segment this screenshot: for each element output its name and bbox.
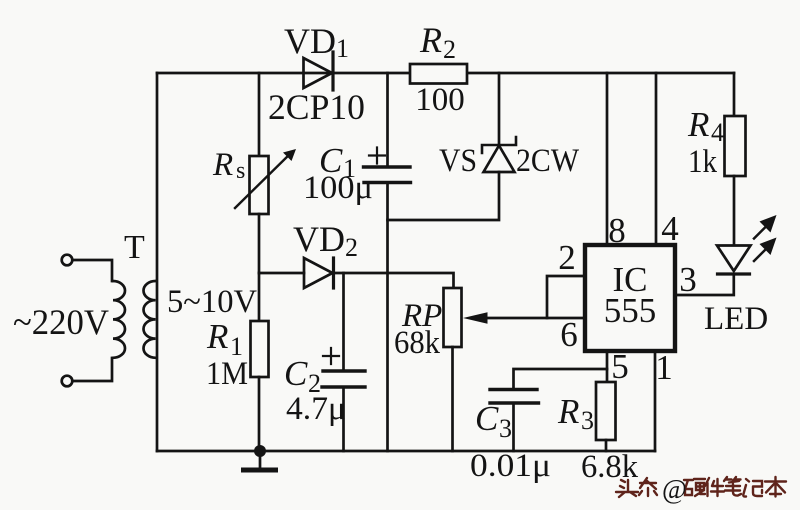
- diode VD2: [304, 258, 334, 288]
- wire pin6 to RP wiper: [463, 312, 585, 324]
- ground: [244, 451, 276, 470]
- label R1: [206, 317, 243, 361]
- svg-text:2: 2: [443, 35, 456, 64]
- label 4.7u: [286, 391, 346, 427]
- svg-text:68k: 68k: [394, 325, 440, 361]
- LED D1: [675, 246, 751, 296]
- label 2CP10: [268, 87, 365, 127]
- label 2CW: [516, 143, 580, 179]
- svg-text:C: C: [475, 399, 499, 438]
- label RP: [401, 298, 442, 334]
- wire Rs to node A: [258, 214, 261, 273]
- svg-text:~220V: ~220V: [13, 302, 109, 342]
- svg-text:VS: VS: [439, 143, 477, 179]
- svg-text:0.01μ: 0.01μ: [470, 448, 551, 484]
- wire primary bottom: [73, 358, 113, 381]
- label 68k: [394, 325, 440, 361]
- svg-text:VD: VD: [293, 219, 345, 259]
- svg-text:6.8k: 6.8k: [581, 449, 638, 485]
- svg-text:4.7μ: 4.7μ: [286, 391, 346, 427]
- wire pin8: [606, 73, 609, 245]
- watermark at sign: [662, 474, 687, 504]
- transformer T primary terminals: [62, 255, 73, 387]
- wire RP bottom: [451, 347, 454, 451]
- pin 1: [655, 348, 673, 387]
- wire left rail: [156, 73, 159, 451]
- wire VD2 cathode to RP: [334, 273, 454, 288]
- svg-text:8: 8: [608, 211, 626, 250]
- resistor R4: [725, 73, 746, 245]
- svg-text:3: 3: [499, 414, 512, 443]
- zener VS: [388, 73, 517, 220]
- pin 2: [558, 238, 576, 277]
- resistor R2: [410, 64, 467, 84]
- svg-text:R: R: [557, 392, 579, 431]
- label LED: [704, 301, 768, 337]
- pin 5: [611, 347, 629, 386]
- label 100u: [303, 170, 373, 206]
- svg-text:100μ: 100μ: [303, 170, 373, 206]
- svg-text:5: 5: [611, 347, 629, 386]
- svg-text:R: R: [206, 317, 228, 356]
- svg-text:2CW: 2CW: [516, 143, 580, 179]
- label 1k: [688, 144, 717, 180]
- svg-text:R: R: [212, 147, 233, 183]
- svg-text:R: R: [419, 20, 442, 60]
- LED light arrows: [754, 215, 777, 261]
- label T: [124, 229, 145, 266]
- label VD1: [284, 21, 349, 63]
- svg-text:100: 100: [415, 82, 465, 118]
- transformer T secondary coil: [144, 281, 156, 358]
- label 1M: [206, 356, 248, 392]
- wire pin4: [655, 73, 658, 245]
- svg-text:2CP10: 2CP10: [268, 87, 365, 127]
- svg-text:4: 4: [711, 118, 724, 147]
- label C2: [284, 354, 321, 398]
- transformer T primary coil: [113, 281, 125, 358]
- label C1: [319, 141, 356, 183]
- svg-text:1: 1: [336, 34, 349, 63]
- label R3: [557, 392, 594, 435]
- label 100: [415, 82, 465, 118]
- wire top rail: [157, 72, 734, 75]
- svg-text:555: 555: [604, 291, 657, 330]
- label 0.01u: [470, 448, 551, 484]
- wire Rs top branch: [258, 73, 261, 156]
- svg-text:C: C: [284, 354, 308, 393]
- svg-text:1M: 1M: [206, 356, 248, 392]
- svg-text:@: @: [662, 474, 687, 504]
- label IC 555: [604, 260, 657, 330]
- pin 3: [679, 260, 697, 299]
- wire pin1: [654, 351, 657, 451]
- capacitor C3: [490, 369, 607, 451]
- resistor R1: [251, 273, 269, 451]
- pin 4: [661, 209, 679, 248]
- label VS: [439, 143, 477, 179]
- label Rs: [212, 147, 245, 184]
- svg-text:5~10V: 5~10V: [167, 284, 257, 320]
- wire primary top: [73, 260, 113, 281]
- wire bottom rail: [157, 450, 655, 453]
- svg-text:VD: VD: [284, 21, 336, 61]
- wire pin2: [547, 276, 585, 318]
- svg-text:2: 2: [345, 233, 358, 262]
- svg-text:LED: LED: [704, 301, 768, 337]
- svg-text:2: 2: [558, 238, 576, 277]
- pin 8: [608, 211, 626, 250]
- op-amp U1 IC 555 box: [585, 245, 675, 351]
- svg-text:6: 6: [560, 315, 578, 354]
- svg-text:1: 1: [655, 348, 673, 387]
- svg-text:4: 4: [661, 209, 679, 248]
- wire pin5: [606, 351, 609, 382]
- label ~220V: [13, 302, 109, 342]
- label R4: [687, 105, 724, 147]
- label VD2: [293, 219, 358, 262]
- resistor Rs: [235, 149, 296, 214]
- potentiometer RP: [444, 288, 462, 347]
- label 5~10V: [167, 284, 257, 320]
- label C3: [475, 399, 512, 443]
- svg-text:s: s: [236, 158, 245, 184]
- capacitor C1: [364, 73, 411, 451]
- wire VD2 anode: [259, 272, 304, 275]
- resistor R3: [596, 382, 616, 451]
- label 6.8k: [581, 449, 638, 485]
- svg-text:3: 3: [679, 260, 697, 299]
- pin 6: [560, 315, 578, 354]
- svg-text:3: 3: [581, 406, 594, 435]
- capacitor C2: [322, 273, 365, 451]
- junction dot: [254, 445, 266, 457]
- svg-text:T: T: [124, 229, 145, 266]
- svg-text:R: R: [687, 105, 709, 144]
- label R2: [419, 20, 456, 64]
- watermark: [616, 477, 786, 497]
- diode VD1: [304, 52, 334, 90]
- svg-text:1k: 1k: [688, 144, 717, 180]
